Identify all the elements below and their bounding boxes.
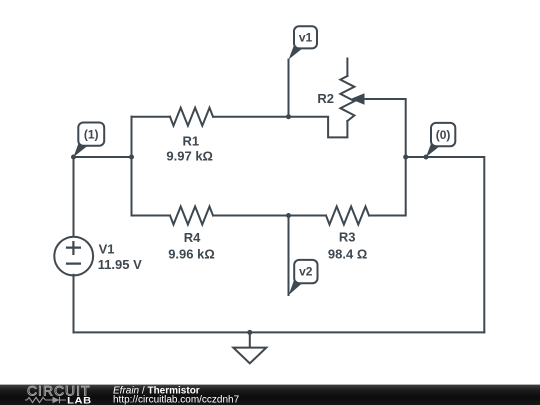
node flag v1 xyxy=(289,26,317,59)
junction node (0) left xyxy=(403,155,408,160)
resistor R4 xyxy=(132,207,289,225)
wire right vertical up to node (0) row xyxy=(406,157,485,332)
svg-text:R1: R1 xyxy=(182,134,199,149)
wire R2 bottom connect xyxy=(289,117,348,138)
svg-text:V1: V1 xyxy=(99,241,115,256)
resistor R3 xyxy=(289,207,370,225)
svg-text:v1: v1 xyxy=(299,31,313,45)
svg-text:9.96 kΩ: 9.96 kΩ xyxy=(168,247,215,262)
svg-text:R4: R4 xyxy=(184,230,201,245)
node flag (1) xyxy=(74,123,105,158)
svg-text:LAB: LAB xyxy=(67,396,92,405)
R2 wiper arrowhead xyxy=(351,93,365,105)
junction v1 node xyxy=(286,114,291,119)
node flag v2 xyxy=(289,260,318,295)
svg-text:11.95 V: 11.95 V xyxy=(98,257,142,272)
junction node (1) xyxy=(71,155,76,160)
wire left vertical from node (1) to V1 top xyxy=(73,157,75,237)
svg-text:R2: R2 xyxy=(317,91,334,106)
ground xyxy=(233,332,266,363)
svg-text:http://circuitlab.com/cczdnh7: http://circuitlab.com/cczdnh7 xyxy=(113,394,240,405)
wire node (1) horizontal xyxy=(74,156,132,158)
svg-text:v2: v2 xyxy=(299,264,313,278)
potentiometer R2 xyxy=(340,59,354,122)
junction node (0) flag xyxy=(424,155,429,160)
svg-text:(1): (1) xyxy=(84,128,99,142)
voltage source V1 xyxy=(54,237,93,276)
node flag (0) xyxy=(426,123,455,157)
wire node (0) down to R3 xyxy=(369,157,406,216)
resistor R1 xyxy=(132,108,289,126)
junction v2 node xyxy=(286,213,291,218)
wire v1 stub xyxy=(288,60,290,117)
junction left branch xyxy=(129,155,134,160)
footer bar xyxy=(0,385,540,405)
wire v2 stub xyxy=(288,216,290,296)
svg-text:(0): (0) xyxy=(436,128,451,142)
wire bottom ground rail xyxy=(74,331,485,333)
wire V1 bottom to ground rail xyxy=(73,275,75,333)
logo symbol resistor+diode xyxy=(25,397,66,403)
svg-text:9.97 kΩ: 9.97 kΩ xyxy=(166,148,213,163)
wire left branch vertical xyxy=(131,117,133,216)
wire R2 wiper to node (0) xyxy=(362,99,406,157)
svg-text:98.4 Ω: 98.4 Ω xyxy=(328,246,367,261)
svg-text:R3: R3 xyxy=(339,230,356,245)
junction ground xyxy=(247,330,252,335)
